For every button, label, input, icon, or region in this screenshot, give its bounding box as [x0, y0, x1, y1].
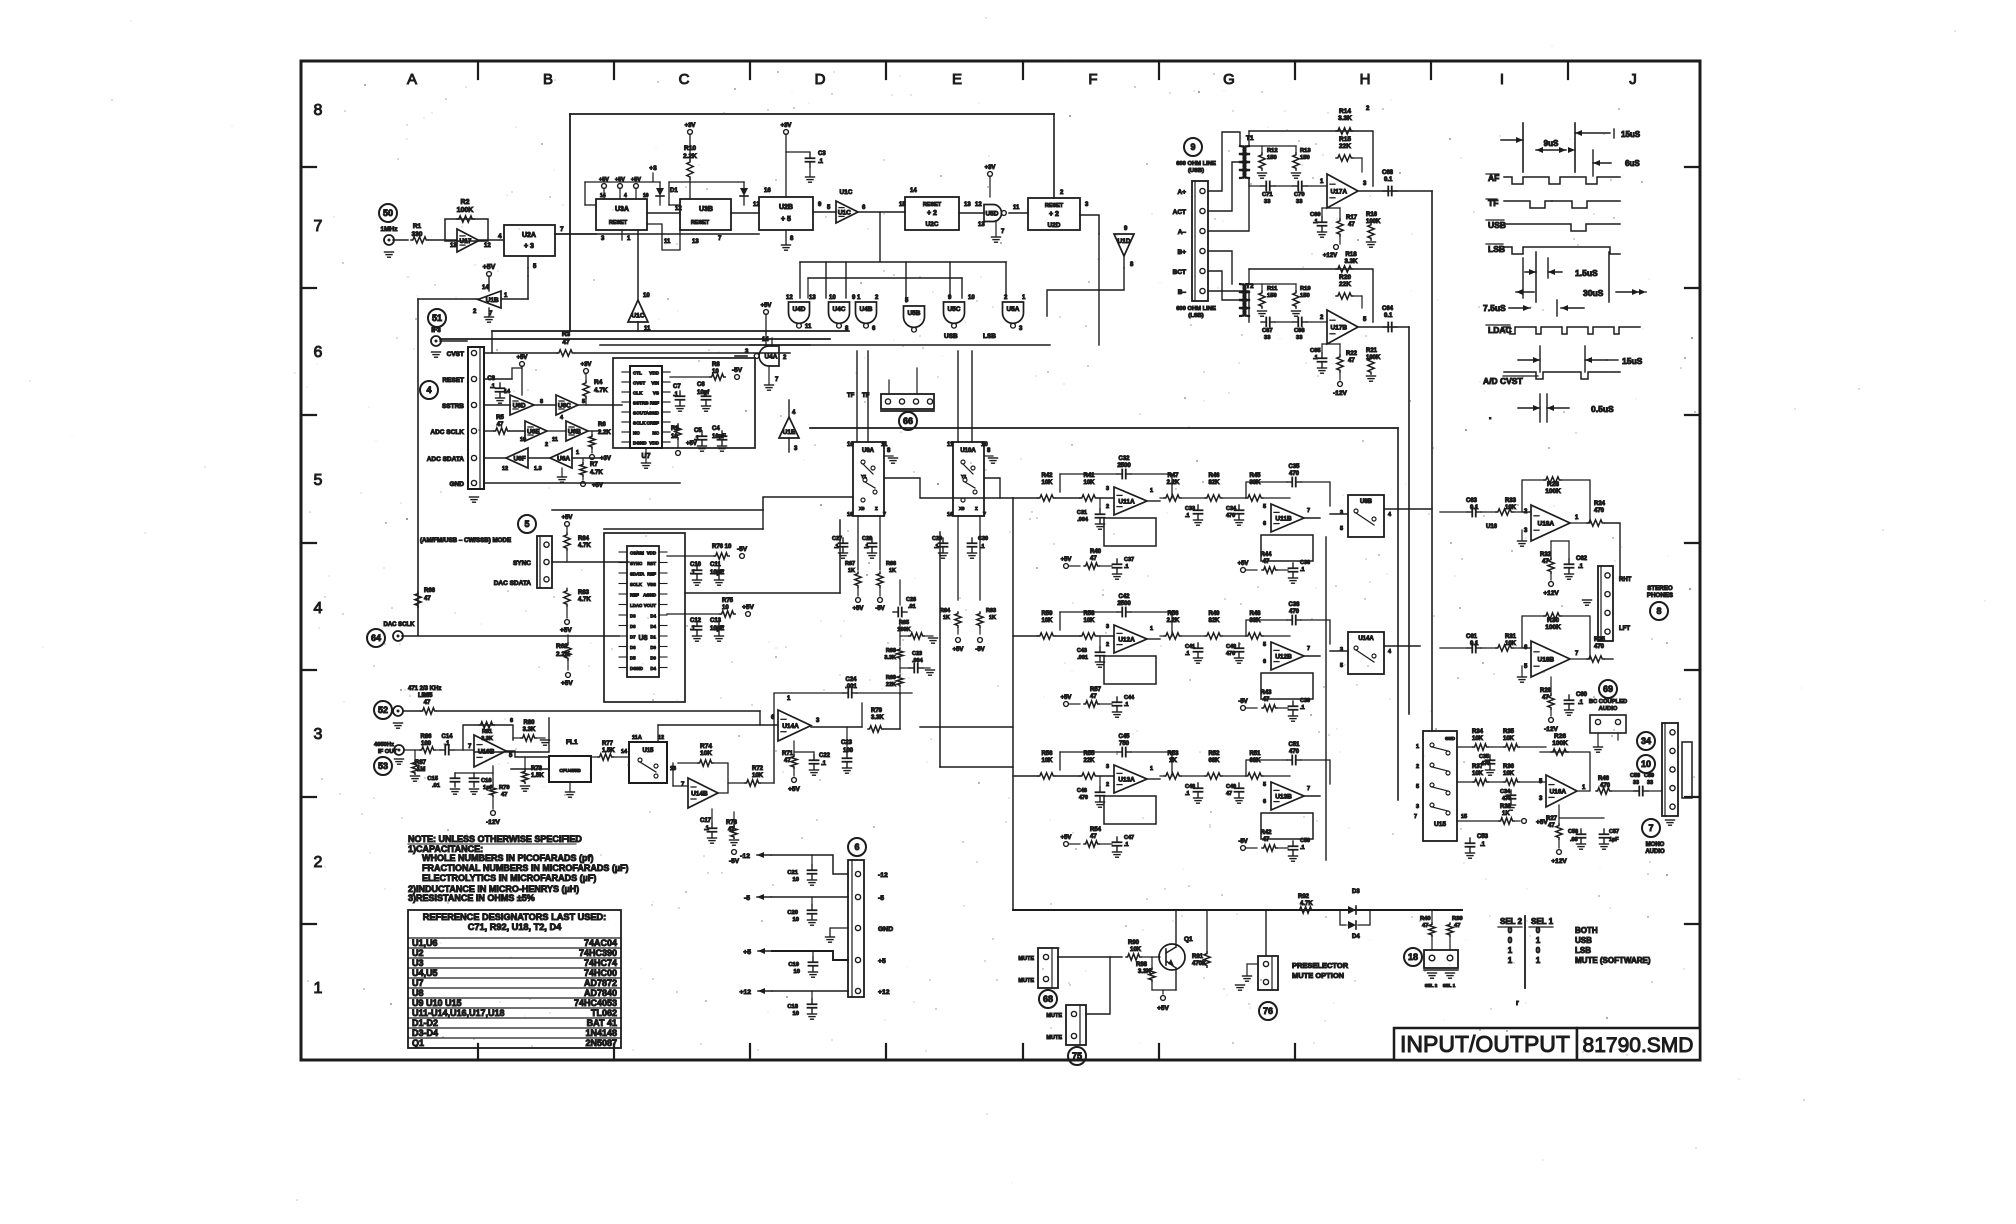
- svg-text:100K: 100K: [1545, 488, 1561, 495]
- svg-text:B: B: [543, 71, 553, 88]
- svg-text:4: 4: [498, 233, 502, 240]
- svg-text:U2D: U2D: [1047, 222, 1060, 229]
- svg-text:-5V: -5V: [729, 858, 740, 865]
- svg-text:1K: 1K: [1169, 758, 1177, 764]
- svg-text:3.3K: 3.3K: [884, 655, 896, 661]
- svg-text:100K: 100K: [1552, 740, 1568, 747]
- svg-text:7: 7: [983, 512, 986, 518]
- svg-text:ELECTROLYTICS IN MICROFARADS (: ELECTROLYTICS IN MICROFARADS (µF): [422, 873, 596, 883]
- svg-text:471 2/3 KHz: 471 2/3 KHz: [408, 686, 441, 692]
- svg-text:16: 16: [764, 188, 771, 194]
- svg-text:C48: C48: [1185, 784, 1195, 790]
- svg-text:TF: TF: [847, 393, 855, 399]
- svg-text:.1: .1: [1185, 513, 1190, 519]
- svg-text:4.7K: 4.7K: [578, 543, 591, 549]
- svg-text:U14A: U14A: [782, 723, 799, 730]
- svg-text:10K: 10K: [1041, 618, 1053, 624]
- svg-text:7.5uS: 7.5uS: [1483, 303, 1506, 313]
- svg-text:74HC4053: 74HC4053: [574, 998, 617, 1008]
- svg-text:RESET: RESET: [691, 220, 710, 226]
- svg-text:13: 13: [809, 295, 816, 301]
- svg-text:11: 11: [664, 239, 671, 245]
- svg-text:2500: 2500: [1117, 463, 1131, 469]
- svg-text:1: 1: [1150, 766, 1153, 772]
- svg-text:.01: .01: [432, 783, 441, 789]
- svg-text:SDATA: SDATA: [630, 571, 645, 576]
- svg-text:7: 7: [1648, 823, 1653, 833]
- svg-text:3: 3: [1106, 764, 1109, 770]
- svg-text:-5V: -5V: [732, 367, 743, 374]
- svg-text:LSB: LSB: [1488, 244, 1505, 254]
- svg-text:R14: R14: [1339, 108, 1351, 115]
- svg-text:(USB): (USB): [1188, 168, 1204, 174]
- svg-text:ADC SCLK: ADC SCLK: [430, 429, 464, 436]
- svg-text:R66: R66: [424, 588, 436, 594]
- svg-text:C34: C34: [1500, 789, 1511, 795]
- svg-text:J: J: [1629, 71, 1637, 88]
- svg-text:47: 47: [501, 792, 507, 798]
- svg-text:+12: +12: [739, 989, 751, 996]
- svg-text:R75: R75: [722, 598, 734, 604]
- svg-text:C18: C18: [787, 1004, 798, 1010]
- svg-text:+5: +5: [743, 949, 751, 956]
- svg-text:34: 34: [1641, 736, 1651, 746]
- svg-text:U4A: U4A: [764, 354, 777, 361]
- svg-text:USB: USB: [1575, 936, 1592, 945]
- svg-text:R53: R53: [1167, 751, 1179, 757]
- svg-text:3.3K: 3.3K: [1344, 258, 1358, 265]
- svg-text:10K: 10K: [1503, 771, 1515, 777]
- svg-text:U18B: U18B: [1538, 657, 1555, 664]
- svg-text:U9 U10 U15: U9 U10 U15: [412, 998, 462, 1008]
- svg-text:X0: X0: [859, 506, 865, 511]
- svg-text:+5V: +5V: [1157, 1005, 1169, 1012]
- svg-text:DGND: DGND: [633, 441, 647, 446]
- svg-text:22K: 22K: [1083, 758, 1095, 764]
- svg-text:MUTE: MUTE: [1018, 978, 1034, 984]
- svg-text:U6B: U6B: [568, 429, 581, 436]
- svg-text:47: 47: [1226, 791, 1232, 797]
- svg-text:R39: R39: [1452, 916, 1463, 922]
- svg-text:D5: D5: [630, 655, 636, 660]
- svg-text:VOUT: VOUT: [644, 603, 657, 608]
- svg-text:7: 7: [1307, 508, 1310, 514]
- svg-text:1K: 1K: [943, 615, 950, 621]
- svg-text:6: 6: [1263, 659, 1266, 665]
- svg-text:LSB: LSB: [1575, 946, 1591, 955]
- svg-text:U2B: U2B: [779, 204, 793, 211]
- svg-text:MUTE: MUTE: [1018, 956, 1034, 962]
- svg-text:68: 68: [1043, 994, 1053, 1004]
- svg-text:33K: 33K: [1249, 480, 1261, 486]
- svg-text:C8: C8: [487, 376, 495, 382]
- svg-text:7: 7: [314, 218, 323, 235]
- svg-text:10: 10: [829, 295, 836, 301]
- svg-text:5: 5: [1340, 663, 1343, 669]
- svg-text:7: 7: [883, 512, 886, 518]
- svg-text:R63: R63: [986, 608, 996, 614]
- svg-text:C45: C45: [1118, 734, 1130, 740]
- svg-text:U4D: U4D: [792, 306, 805, 313]
- svg-text:74HC390: 74HC390: [579, 948, 617, 958]
- svg-text:Z: Z: [975, 506, 978, 511]
- svg-text:150: 150: [1267, 293, 1277, 299]
- svg-text:C66: C66: [1294, 328, 1305, 334]
- svg-text:C62: C62: [1576, 556, 1588, 562]
- svg-text:3: 3: [1106, 624, 1109, 630]
- svg-text:1: 1: [1508, 956, 1513, 965]
- svg-text:2500: 2500: [1117, 601, 1131, 607]
- svg-text:11: 11: [552, 437, 558, 443]
- svg-text:U17A: U17A: [1330, 189, 1347, 196]
- svg-text:C64: C64: [1382, 306, 1394, 312]
- svg-text:+12: +12: [878, 989, 890, 996]
- svg-text:33: 33: [1296, 335, 1303, 341]
- svg-text:D4: D4: [650, 613, 656, 618]
- svg-text:NOTE: UNLESS OTHERWISE SPECIFI: NOTE: UNLESS OTHERWISE SPECIFIED: [408, 834, 582, 844]
- svg-text:U11B: U11B: [1275, 516, 1292, 523]
- svg-text:R45: R45: [1249, 473, 1261, 479]
- svg-text:C49: C49: [1226, 784, 1236, 790]
- svg-text:U6E: U6E: [527, 429, 540, 436]
- svg-text:0.1: 0.1: [1384, 313, 1393, 319]
- svg-text:R35: R35: [1503, 729, 1515, 735]
- svg-text:0: 0: [1508, 926, 1513, 935]
- svg-text:10K: 10K: [1041, 480, 1053, 486]
- svg-text:U14B: U14B: [691, 791, 708, 798]
- svg-text:16: 16: [847, 512, 853, 518]
- svg-text:.004: .004: [1077, 517, 1089, 523]
- svg-text:18: 18: [1408, 952, 1418, 962]
- svg-text:3: 3: [1340, 647, 1343, 653]
- svg-text:0.1: 0.1: [1384, 177, 1393, 183]
- svg-text:+5V: +5V: [1061, 835, 1072, 841]
- svg-text:C17: C17: [700, 818, 712, 824]
- svg-text:E: E: [952, 71, 962, 88]
- svg-text:U12A: U12A: [1118, 637, 1135, 644]
- svg-text:R21: R21: [1366, 348, 1378, 354]
- svg-text:47: 47: [1090, 834, 1097, 840]
- svg-text:SYNC: SYNC: [513, 560, 531, 567]
- svg-text:R29: R29: [1540, 688, 1552, 694]
- svg-text:3: 3: [314, 726, 323, 743]
- svg-text:R65: R65: [421, 693, 433, 699]
- svg-text:U18A: U18A: [1538, 521, 1555, 528]
- svg-text:C24: C24: [845, 677, 857, 683]
- svg-text:1K: 1K: [1502, 811, 1510, 817]
- svg-text:C6: C6: [697, 382, 705, 388]
- svg-text:1µF: 1µF: [1609, 837, 1619, 843]
- svg-text:1K: 1K: [848, 568, 855, 574]
- svg-text:R71: R71: [782, 751, 794, 757]
- svg-text:C46: C46: [1077, 788, 1087, 794]
- svg-text:C68: C68: [1382, 170, 1394, 176]
- svg-text:5: 5: [1340, 526, 1343, 532]
- svg-text:.1: .1: [834, 544, 839, 550]
- svg-text:CLK: CLK: [633, 391, 643, 396]
- svg-text:100K: 100K: [1545, 624, 1561, 631]
- svg-text:R66: R66: [886, 561, 896, 567]
- svg-text:C53: C53: [1477, 834, 1489, 840]
- svg-text:2: 2: [545, 442, 548, 448]
- svg-text:Q1: Q1: [412, 1038, 424, 1048]
- svg-text:G: G: [1223, 71, 1235, 88]
- svg-text:R26: R26: [1554, 733, 1566, 740]
- svg-text:C14: C14: [441, 734, 453, 740]
- svg-text:10K: 10K: [1130, 947, 1142, 953]
- svg-text:A–: A–: [1178, 229, 1187, 236]
- svg-text:R18: R18: [1345, 251, 1357, 258]
- svg-text:69: 69: [1603, 684, 1613, 694]
- svg-text:10: 10: [847, 442, 854, 448]
- svg-text:÷ 5: ÷ 5: [781, 216, 791, 223]
- svg-text:47: 47: [784, 758, 791, 764]
- svg-text:U16: U16: [1486, 524, 1498, 530]
- svg-text:D1-D2: D1-D2: [412, 1018, 438, 1028]
- svg-text:SCLK: SCLK: [630, 582, 643, 587]
- svg-text:+5V: +5V: [592, 483, 603, 489]
- svg-text:1.5uS: 1.5uS: [1575, 268, 1598, 278]
- svg-text:U11-U14,U16,U17,U18: U11-U14,U16,U17,U18: [412, 1008, 505, 1018]
- svg-text:R92: R92: [1298, 894, 1310, 900]
- svg-text:0: 0: [1508, 936, 1513, 945]
- svg-text:C36: C36: [1300, 560, 1310, 566]
- svg-text:2: 2: [1106, 642, 1109, 648]
- svg-text:ADC SDATA: ADC SDATA: [427, 456, 465, 463]
- svg-text:C38: C38: [1288, 602, 1300, 608]
- svg-text:+5V: +5V: [562, 515, 573, 521]
- svg-text:C34: C34: [1226, 506, 1237, 512]
- svg-text:C20: C20: [787, 910, 798, 916]
- svg-text:USB: USB: [944, 333, 958, 340]
- svg-text:RHT: RHT: [1619, 577, 1632, 583]
- svg-text:SSTRB: SSTRB: [633, 401, 649, 406]
- svg-text:RESET: RESET: [923, 202, 942, 208]
- svg-text:33: 33: [1264, 199, 1271, 205]
- svg-text:4.7K: 4.7K: [578, 597, 591, 603]
- svg-text:13: 13: [692, 239, 699, 245]
- svg-text:3.3K: 3.3K: [523, 727, 536, 733]
- svg-text:D: D: [815, 71, 826, 88]
- svg-text:1: 1: [314, 980, 323, 997]
- svg-text:+3V: +3V: [581, 362, 592, 368]
- svg-text:FL1: FL1: [566, 739, 578, 746]
- svg-text:R13: R13: [1300, 148, 1311, 154]
- svg-text:12: 12: [753, 202, 760, 208]
- svg-text:10µf: 10µf: [697, 390, 710, 396]
- svg-text:C39: C39: [1300, 698, 1310, 704]
- svg-text:R17: R17: [1346, 215, 1358, 221]
- svg-text:+3V: +3V: [985, 165, 996, 171]
- svg-text:5: 5: [1263, 504, 1266, 510]
- svg-text:10K: 10K: [1472, 771, 1484, 777]
- svg-text:SEL 1: SEL 1: [1531, 917, 1554, 926]
- svg-text:74HC74: 74HC74: [584, 958, 617, 968]
- svg-text:4.7K: 4.7K: [590, 470, 603, 476]
- svg-text:4.7K: 4.7K: [594, 387, 608, 394]
- svg-text:-5: -5: [744, 895, 750, 902]
- svg-text:2: 2: [1416, 764, 1419, 770]
- svg-text:R79: R79: [871, 708, 883, 714]
- svg-text:9: 9: [1190, 142, 1195, 152]
- svg-text:C26: C26: [906, 597, 916, 603]
- svg-text:VSS: VSS: [647, 582, 656, 587]
- svg-text:R68: R68: [886, 648, 896, 654]
- svg-text:C12: C12: [690, 618, 702, 624]
- svg-text:R76 10: R76 10: [712, 544, 732, 550]
- svg-text:+3V: +3V: [781, 123, 792, 129]
- svg-text:R42: R42: [1041, 473, 1053, 479]
- svg-text:+5V: +5V: [1061, 695, 1072, 701]
- svg-text:1: 1: [1150, 488, 1153, 494]
- svg-text:470: 470: [1289, 749, 1300, 755]
- svg-text:R37: R37: [1472, 764, 1484, 770]
- svg-text:U2C: U2C: [925, 221, 938, 228]
- svg-text:100: 100: [843, 748, 854, 754]
- svg-text:1: 1: [1536, 956, 1541, 965]
- svg-text:+5V: +5V: [953, 647, 964, 653]
- svg-text:3.3K: 3.3K: [871, 715, 884, 721]
- svg-text:DAC SDATA: DAC SDATA: [494, 580, 532, 587]
- svg-text:R11: R11: [1267, 286, 1278, 292]
- svg-text:U1B: U1B: [486, 297, 499, 304]
- svg-text:11: 11: [947, 442, 954, 448]
- svg-text:12: 12: [975, 202, 982, 208]
- svg-text:U1E: U1E: [783, 429, 796, 436]
- svg-text:R16: R16: [1366, 212, 1378, 218]
- svg-text:U2: U2: [412, 948, 424, 958]
- svg-text:U5A: U5A: [1006, 306, 1019, 313]
- svg-text:12: 12: [502, 466, 508, 472]
- svg-text:12: 12: [675, 206, 682, 212]
- svg-text:GND: GND: [878, 926, 893, 933]
- svg-text:C42: C42: [1118, 594, 1130, 600]
- svg-text:+12V: +12V: [1543, 590, 1559, 597]
- svg-text:R64: R64: [940, 608, 951, 614]
- svg-text:U4B: U4B: [859, 306, 872, 313]
- svg-text:B–: B–: [1178, 289, 1187, 296]
- svg-text:SCLK: SCLK: [633, 421, 646, 426]
- svg-text:R40: R40: [1420, 916, 1431, 922]
- svg-text:13: 13: [978, 222, 985, 228]
- svg-text:.1: .1: [1578, 564, 1584, 570]
- svg-text:PRESELECTOR: PRESELECTOR: [1292, 961, 1349, 970]
- svg-text:12: 12: [786, 295, 793, 301]
- svg-text:R8: R8: [712, 362, 720, 368]
- svg-text:66: 66: [903, 416, 913, 426]
- svg-text:11: 11: [805, 324, 812, 330]
- svg-text:470: 470: [1594, 644, 1605, 650]
- svg-text:U15: U15: [642, 748, 654, 754]
- svg-text:R43: R43: [1260, 690, 1272, 696]
- svg-text:R27: R27: [1546, 816, 1558, 822]
- svg-text:U5C: U5C: [947, 306, 960, 313]
- svg-text:C21: C21: [787, 870, 798, 876]
- svg-text:DGND: DGND: [630, 666, 643, 671]
- svg-text:330: 330: [412, 231, 423, 238]
- svg-text:X0: X0: [959, 506, 965, 511]
- svg-text:22K: 22K: [1339, 281, 1351, 288]
- svg-text:+5: +5: [878, 958, 886, 965]
- svg-text:U8: U8: [639, 635, 648, 642]
- svg-text:D4: D4: [1352, 934, 1360, 940]
- svg-text:8: 8: [1656, 606, 1661, 616]
- svg-text:74AC04: 74AC04: [584, 938, 617, 948]
- svg-text:BOTH: BOTH: [1575, 926, 1598, 935]
- svg-text:.1: .1: [1578, 700, 1584, 706]
- svg-text:2N5087: 2N5087: [585, 1038, 617, 1048]
- svg-text:C15: C15: [427, 776, 438, 782]
- svg-text:100K: 100K: [457, 207, 474, 214]
- svg-text:R40: R40: [1090, 549, 1102, 555]
- svg-text:3: 3: [1340, 510, 1343, 516]
- svg-text:U7: U7: [412, 978, 424, 988]
- svg-text:.1: .1: [1480, 842, 1486, 848]
- svg-text:R2: R2: [461, 199, 470, 206]
- svg-text:A: A: [407, 71, 417, 88]
- svg-text:SSTRB: SSTRB: [442, 403, 464, 410]
- svg-text:R51: R51: [1249, 751, 1261, 757]
- svg-text:R59: R59: [1041, 611, 1053, 617]
- svg-text:R33: R33: [1505, 498, 1517, 504]
- svg-text:WHOLE NUMBERS IN PICOFARADS (p: WHOLE NUMBERS IN PICOFARADS (pf): [422, 853, 594, 863]
- svg-text:-12: -12: [740, 853, 750, 860]
- svg-text:R56: R56: [1041, 751, 1053, 757]
- svg-text:2.2K: 2.2K: [1167, 618, 1180, 624]
- svg-text:47: 47: [424, 596, 431, 602]
- svg-text:16: 16: [947, 512, 953, 518]
- svg-text:IF3: IF3: [431, 327, 441, 334]
- svg-text:15: 15: [1461, 814, 1467, 820]
- svg-text:47: 47: [1348, 358, 1355, 364]
- svg-text:U14A: U14A: [1358, 636, 1374, 642]
- svg-text:BC COUPLED: BC COUPLED: [1589, 699, 1627, 705]
- svg-text:600 OHM LINE: 600 OHM LINE: [1176, 161, 1216, 167]
- svg-text:C3: C3: [818, 151, 826, 157]
- svg-text:AUDIO: AUDIO: [1645, 849, 1665, 855]
- svg-text:C41: C41: [1185, 644, 1195, 650]
- svg-text:R67: R67: [845, 561, 855, 567]
- svg-text:ACT: ACT: [1173, 209, 1186, 216]
- svg-text:R15: R15: [1339, 136, 1351, 143]
- svg-text:R42: R42: [1260, 830, 1272, 836]
- svg-text:10: 10: [794, 969, 800, 975]
- svg-text:Q1: Q1: [1184, 936, 1193, 943]
- svg-text:470: 470: [1226, 651, 1235, 657]
- svg-text:10: 10: [793, 1011, 799, 1017]
- svg-text:10K: 10K: [1041, 758, 1053, 764]
- svg-text:MUTE OPTION: MUTE OPTION: [1292, 971, 1344, 980]
- svg-text:14: 14: [482, 285, 489, 291]
- svg-text:1.5K: 1.5K: [531, 773, 544, 779]
- svg-text:D4: D4: [650, 624, 656, 629]
- svg-text:MUTE: MUTE: [1046, 1013, 1062, 1019]
- svg-text:2: 2: [314, 854, 323, 871]
- svg-text:.1: .1: [1124, 702, 1129, 708]
- svg-text:5: 5: [582, 399, 585, 405]
- svg-text:12: 12: [658, 735, 664, 741]
- svg-text:0: 0: [1536, 946, 1541, 955]
- svg-text:6uS: 6uS: [1625, 159, 1640, 168]
- svg-text:R52: R52: [1208, 751, 1220, 757]
- svg-text:+5V: +5V: [561, 680, 573, 687]
- svg-text:.01: .01: [908, 604, 916, 610]
- svg-text:RST: RST: [647, 561, 656, 566]
- svg-text:.1: .1: [818, 159, 824, 165]
- svg-text:100K: 100K: [897, 627, 910, 633]
- svg-text:33: 33: [1296, 199, 1303, 205]
- svg-text:C27: C27: [832, 536, 842, 542]
